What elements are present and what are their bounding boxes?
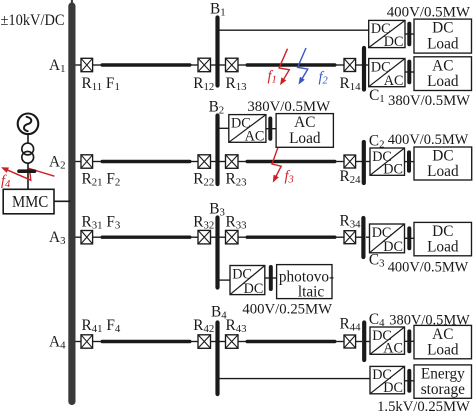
- bus B1 (vertical): [215, 18, 219, 86]
- cable feeder cable B4-C4: [247, 340, 335, 343]
- svg-text:C1: C1: [369, 87, 385, 105]
- wire into link bar U4-DC Load: [405, 161, 415, 163]
- svg-text:B4: B4: [211, 304, 227, 322]
- svg-text:AC: AC: [383, 341, 403, 357]
- svg-text:A2: A2: [49, 154, 65, 172]
- converter U1 (DC/DC): [369, 20, 405, 49]
- wire A3 feeder lead-out: [190, 236, 198, 238]
- svg-text:A1: A1: [49, 57, 65, 75]
- bus C1 (vertical): [362, 48, 366, 90]
- breaker R43: [226, 335, 239, 349]
- svg-text:380V/0.5MW: 380V/0.5MW: [388, 92, 471, 109]
- wire into link bar U3-AC Load: [266, 128, 276, 130]
- wire B4 right tick: [220, 341, 226, 343]
- wire into link bar U7-AC Load: [405, 340, 415, 342]
- wire into link bar U5-DC Load: [405, 237, 415, 239]
- svg-text:f3: f3: [285, 168, 294, 185]
- converter U8 (DC/DC): [370, 366, 405, 396]
- wire A1 feeder lead-out: [190, 64, 198, 66]
- breaker R23: [226, 155, 239, 169]
- svg-text:DC: DC: [432, 20, 453, 37]
- svg-text:R12: R12: [193, 75, 214, 93]
- svg-text:storage: storage: [421, 381, 465, 398]
- svg-text:DC: DC: [244, 281, 264, 297]
- wire B4 left tick: [211, 341, 216, 343]
- wire A3 feeder lead-in: [93, 236, 101, 238]
- breaker R33: [226, 230, 239, 244]
- svg-text:R34: R34: [340, 212, 362, 230]
- svg-text:B1: B1: [210, 0, 226, 18]
- svg-text:1.5kV/0.25MW: 1.5kV/0.25MW: [377, 398, 470, 414]
- breaker R12: [198, 58, 211, 72]
- converter U6 (DC/DC): [230, 266, 265, 297]
- breaker R22: [198, 155, 211, 169]
- fault location bar on MMC feeder: [19, 169, 35, 173]
- wire B2 to converter U3: [220, 127, 230, 129]
- wire B3 to converter U6: [220, 279, 231, 281]
- main DC bus (vertical): [68, 6, 75, 402]
- svg-text:R31 F3: R31 F3: [82, 214, 121, 232]
- svg-text:B3: B3: [209, 200, 225, 218]
- svg-text:DC: DC: [384, 34, 404, 50]
- bus C2 (vertical): [362, 142, 366, 183]
- wire B1 to converter U1: [220, 29, 370, 31]
- bus B3 (vertical): [215, 218, 219, 288]
- wire C4 tick: [356, 341, 362, 343]
- wire B4 to converter U8 (energy storage feeder): [220, 378, 371, 380]
- AC grid source G1: [18, 114, 39, 135]
- svg-text:C4: C4: [369, 311, 385, 329]
- link bar U2-AC Load: [407, 62, 411, 83]
- svg-text:R24: R24: [340, 168, 362, 186]
- svg-text:380V/0.5MW: 380V/0.5MW: [247, 98, 330, 115]
- wire main bus top stub: [71, 0, 73, 7]
- svg-text:Load: Load: [427, 239, 459, 256]
- wire B4 feeder lead-out: [238, 341, 246, 343]
- converter U2 (DC/AC): [369, 59, 405, 89]
- wire A4 feeder lead-in: [93, 341, 101, 343]
- wire C3 feeder lead-in: [336, 236, 344, 238]
- wire B2 right tick: [220, 161, 226, 163]
- svg-text:f4: f4: [1, 173, 11, 190]
- wire B3 feeder lead-out: [238, 236, 246, 238]
- svg-text:380V/0.5MW: 380V/0.5MW: [389, 312, 470, 329]
- breaker R21: [81, 155, 93, 168]
- svg-text:AC: AC: [432, 57, 453, 74]
- fault arrow f2: [298, 48, 308, 85]
- load box: AC Load (row4): [414, 325, 472, 358]
- load box: AC Load (row1): [414, 57, 472, 91]
- link bar U5-DC Load: [407, 228, 411, 248]
- svg-text:DC: DC: [432, 223, 453, 240]
- converter U7 (DC/AC): [370, 327, 405, 357]
- wire bus tick A3: [76, 236, 82, 238]
- svg-text:400V/0.25MW: 400V/0.25MW: [242, 301, 332, 318]
- bus C3 (vertical): [361, 218, 365, 257]
- svg-text:R14: R14: [340, 75, 362, 93]
- svg-text:R23: R23: [226, 170, 247, 188]
- svg-text:AC: AC: [432, 326, 453, 343]
- transformer T1: [22, 143, 34, 163]
- svg-text:400V/0.5MW: 400V/0.5MW: [388, 259, 469, 276]
- load box: photovoltaic (row3, bus B3): [277, 265, 335, 301]
- svg-text:R33: R33: [226, 214, 247, 232]
- svg-text:DC: DC: [383, 162, 403, 178]
- svg-text:R21 F2: R21 F2: [82, 170, 121, 188]
- svg-text:DC: DC: [383, 380, 403, 396]
- wire A4 feeder lead-out: [190, 341, 198, 343]
- svg-text:Energy: Energy: [421, 366, 465, 383]
- wire C3 tick: [356, 236, 362, 238]
- cable feeder cable B1-C1: [247, 63, 335, 66]
- svg-text:C3: C3: [369, 252, 385, 270]
- svg-text:f1: f1: [268, 69, 277, 86]
- wire B3 left tick: [211, 236, 216, 238]
- svg-text:ltaic: ltaic: [298, 283, 325, 300]
- converter U3 (DC/AC): [229, 115, 266, 145]
- converter U4 (DC/DC): [370, 148, 405, 178]
- wire C1 feeder lead-in: [336, 64, 344, 66]
- fault arrow f3: [272, 148, 281, 183]
- breaker R32: [198, 230, 211, 244]
- svg-text:Load: Load: [427, 342, 459, 359]
- wire bus tick A2: [76, 161, 82, 163]
- svg-text:R22: R22: [193, 170, 214, 188]
- wire C1 tick: [356, 64, 362, 66]
- svg-text:DC: DC: [432, 148, 453, 165]
- cable feeder cable A4-B4: [102, 340, 190, 343]
- svg-text:R44: R44: [340, 315, 362, 333]
- svg-text:Load: Load: [427, 73, 459, 90]
- breaker R42: [198, 335, 211, 349]
- cable feeder cable A1-B1: [102, 63, 190, 66]
- svg-text:R11 F1: R11 F1: [82, 75, 120, 93]
- wire transformer to MMC: [27, 163, 29, 189]
- wire bus tick A4: [76, 341, 82, 343]
- svg-text:AC: AC: [245, 129, 265, 145]
- wire B1 right tick: [220, 64, 226, 66]
- cable feeder cable A2-B2: [102, 160, 190, 163]
- cable feeder cable A3-B3: [102, 235, 190, 238]
- svg-text:f2: f2: [319, 70, 329, 87]
- link bar U4-DC Load: [407, 152, 411, 170]
- wire A2 feeder lead-in: [93, 161, 101, 163]
- fault arrow f1: [279, 49, 289, 86]
- bus B4 (vertical): [215, 323, 219, 395]
- MMC converter box: [3, 189, 54, 214]
- wire C2 feeder lead-in: [336, 161, 344, 163]
- wire B2 feeder lead-out: [238, 161, 246, 163]
- load box: DC Load (row1): [414, 19, 472, 53]
- svg-text:B2: B2: [209, 99, 225, 117]
- converter U5 (DC/DC): [370, 224, 405, 255]
- breaker R44: [344, 335, 356, 348]
- breaker R34: [344, 231, 356, 244]
- svg-text:A4: A4: [49, 334, 66, 352]
- wire C2 to converter: [366, 161, 371, 163]
- bus B2 (vertical): [215, 116, 219, 185]
- breaker R41: [81, 335, 93, 348]
- wire into link bar U2-AC Load: [405, 71, 414, 73]
- link bar U7-AC Load: [407, 331, 411, 351]
- wire into link bar U6-photovoltaic: [265, 277, 277, 279]
- wire C2 tick: [356, 161, 362, 163]
- svg-text:AC: AC: [384, 73, 404, 89]
- bus C4 (vertical): [362, 323, 366, 361]
- wire B1 left tick: [211, 64, 216, 66]
- breaker R14: [344, 59, 356, 72]
- svg-text:AC: AC: [294, 114, 315, 131]
- svg-text:Load: Load: [289, 130, 321, 147]
- breaker R24: [344, 155, 356, 168]
- svg-text:400V/0.5MW: 400V/0.5MW: [388, 131, 469, 148]
- link bar U6-photovoltaic: [269, 267, 273, 289]
- load box: AC Load (row2, bus B2): [276, 114, 333, 148]
- svg-text:400V/0.5MW: 400V/0.5MW: [387, 4, 471, 21]
- breaker R11: [81, 58, 93, 71]
- wire C4 feeder lead-in: [336, 341, 344, 343]
- svg-text:MMC: MMC: [12, 192, 48, 211]
- wire into link bar U8-energy storage: [405, 380, 415, 382]
- svg-text:R13: R13: [226, 75, 247, 93]
- load box: Energy storage (row4): [414, 365, 472, 398]
- wire B3 right tick: [220, 236, 226, 238]
- cable feeder cable B2-C2: [247, 160, 335, 163]
- svg-text:DC: DC: [383, 239, 403, 255]
- wire A1 feeder lead-in: [93, 64, 101, 66]
- link bar U1-DC Load: [407, 24, 411, 45]
- load box: DC Load (row2): [414, 147, 472, 180]
- breaker R13: [226, 58, 239, 72]
- wire B1 feeder lead-out: [238, 64, 246, 66]
- breaker R31: [81, 231, 93, 244]
- load box: DC Load (row3): [414, 222, 472, 255]
- wire A2 feeder lead-out: [190, 161, 198, 163]
- link bar U8-energy storage: [407, 371, 411, 391]
- svg-text:R43: R43: [226, 317, 247, 335]
- link bar U3-AC Load: [268, 119, 272, 139]
- wire B2 left tick: [211, 161, 216, 163]
- wire C4 to converter: [366, 341, 371, 343]
- wire C1 to converter: [366, 64, 371, 66]
- svg-text:R41 F4: R41 F4: [82, 317, 121, 335]
- svg-text:±10kV/DC: ±10kV/DC: [1, 12, 65, 29]
- wire source to transformer: [27, 135, 29, 144]
- fault arrow f4: [1, 167, 54, 180]
- wire bus tick A1: [76, 64, 82, 66]
- wire MMC to main bus: [54, 200, 71, 202]
- wire C3 to converter: [366, 236, 371, 238]
- svg-text:Load: Load: [427, 163, 459, 180]
- svg-text:Load: Load: [427, 35, 459, 52]
- svg-text:A3: A3: [49, 229, 65, 247]
- cable feeder cable B3-C3: [247, 235, 335, 238]
- wire into link bar U1-DC Load: [405, 33, 414, 35]
